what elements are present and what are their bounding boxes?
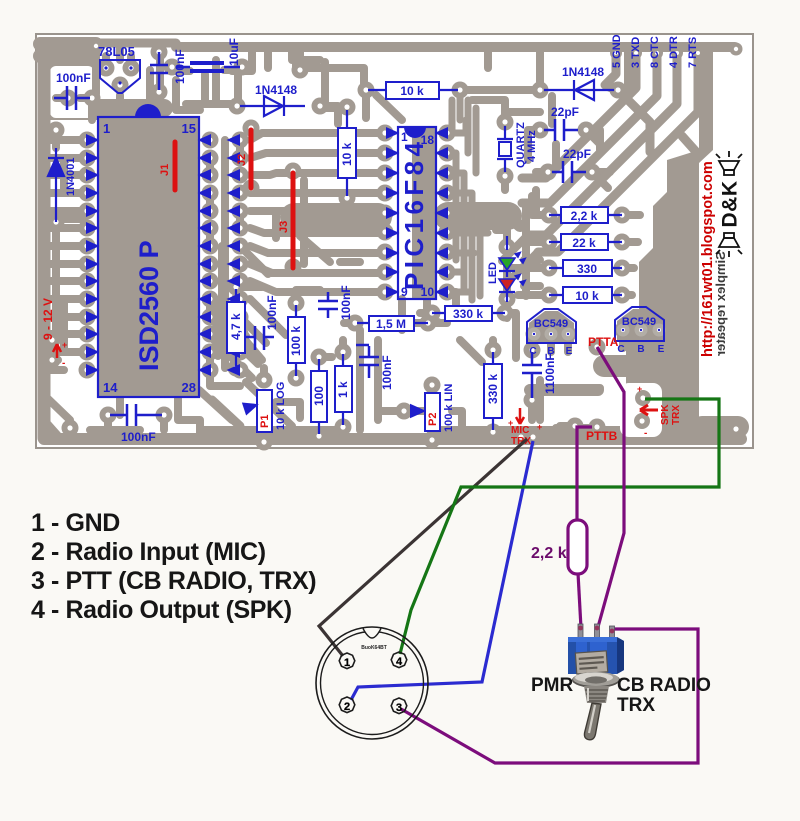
svg-text:BC549: BC549: [534, 318, 568, 330]
svg-text:1: 1: [103, 121, 110, 136]
svg-text:SPK: SPK: [660, 404, 671, 425]
wire: PIC right escape traces: [449, 120, 488, 300]
resistor R 10k right: [563, 287, 612, 303]
resistor R 330k horizontal: [445, 306, 492, 321]
PCB board outline: [36, 34, 753, 448]
wire: resistor ladder connections: [512, 196, 640, 295]
capacitor C 10uF electrolytic: [176, 66, 240, 69]
wire: PIC right vertical escapes: [452, 95, 476, 173]
svg-text:+: +: [62, 340, 67, 350]
wire: bottom edge ground trace: [44, 433, 741, 445]
svg-text:BuoK64BT: BuoK64BT: [361, 645, 387, 651]
svg-text:100nF: 100nF: [121, 430, 156, 444]
resistor R 2,2k: [561, 207, 608, 223]
capacitor C 100nF right lower: [522, 352, 542, 398]
svg-text:E: E: [658, 344, 665, 355]
svg-text:100nF: 100nF: [339, 285, 353, 320]
svg-text:PMR: PMR: [531, 675, 574, 696]
DIN key notch: [363, 629, 381, 639]
toggle switch washer: [572, 672, 620, 688]
wire: density batch 3: [176, 46, 320, 110]
DIN connector circle: [316, 627, 428, 739]
toggle switch body: [568, 637, 624, 674]
svg-text:1 - GND: 1 - GND: [31, 509, 120, 537]
wire: extra top area traces: [150, 46, 505, 122]
wire: fan traces from top connector pads: [522, 50, 698, 252]
wire purple PTTA to switch middle pin: [597, 347, 624, 627]
resistor R 10k vertical: [338, 128, 356, 178]
svg-text:2 - Radio Input (MIC): 2 - Radio Input (MIC): [31, 538, 266, 566]
resistor R 22k: [561, 234, 608, 250]
capacitor C 100nF bottom under ISD: [110, 404, 162, 426]
svg-text:8 CTC: 8 CTC: [649, 36, 661, 68]
wire: vertical bus left of resistor ladder: [512, 190, 536, 296]
wire: middle vertical bus between pad columns: [225, 140, 240, 368]
svg-text:3 - PTT (CB RADIO, TRX): 3 - PTT (CB RADIO, TRX): [31, 567, 316, 595]
svg-text:1: 1: [344, 657, 350, 669]
jumper J1: [173, 142, 178, 190]
svg-text:28: 28: [182, 380, 196, 395]
svg-text:D&K: D&K: [719, 181, 742, 228]
resistor R 10k horizontal top: [386, 82, 439, 99]
svg-text:BC549: BC549: [622, 316, 656, 328]
wire purple DIN pin 3 to switch right pin: [401, 629, 698, 763]
IC U1 notch: [135, 104, 161, 117]
wire: left column extras: [48, 175, 80, 370]
svg-text:1N4148: 1N4148: [255, 83, 297, 97]
svg-text:3 TXD: 3 TXD: [630, 37, 642, 68]
regulator 78L05 outline: [100, 60, 140, 93]
svg-text:1,5 M: 1,5 M: [376, 317, 406, 331]
wire purple PTTB to 2,2k resistor: [577, 427, 592, 521]
wire: right large ground plane: [626, 150, 699, 434]
IC U1 pin arrows: [86, 134, 211, 376]
svg-text:15: 15: [182, 121, 196, 136]
node MIC TRX: [516, 408, 524, 424]
svg-text:-: -: [62, 358, 65, 369]
svg-text:5 GND: 5 GND: [611, 34, 623, 68]
wire: ISD left pin stubs: [48, 158, 80, 352]
resistor R 100k vertical: [288, 317, 305, 363]
wire: density batch 4: [276, 236, 360, 418]
diode D 1N4001: [48, 148, 64, 222]
svg-text:2,2 k: 2,2 k: [531, 545, 567, 562]
wire: density batch 2: [96, 50, 366, 124]
svg-text:CB RADIO: CB RADIO: [617, 675, 711, 696]
node SPK TRX: [620, 383, 662, 437]
svg-text:+: +: [637, 384, 642, 394]
svg-text:1 k: 1 k: [336, 381, 350, 398]
svg-text:14: 14: [103, 380, 118, 395]
wire: density batch 6: [210, 193, 276, 386]
wire: left area stubs to 1N4001 and supply pads: [44, 98, 92, 438]
IC U2 PIC16F84 outline: [398, 127, 436, 299]
wire: lower middle traces: [210, 287, 532, 442]
svg-text:3: 3: [396, 702, 402, 714]
svg-text:100nF: 100nF: [56, 71, 91, 85]
svg-text:22pF: 22pF: [551, 105, 579, 119]
transistor Q2 BC549: [617, 309, 662, 340]
svg-text:B: B: [637, 344, 644, 355]
wire: 78L05 area: [100, 99, 164, 117]
DIN pin 2: [339, 697, 355, 713]
wire: density batch 5: [48, 96, 608, 356]
svg-text:330 k: 330 k: [486, 374, 500, 404]
wire: lower area extras: [199, 300, 740, 430]
svg-text:-: -: [644, 428, 647, 439]
svg-text:J1: J1: [159, 164, 171, 176]
svg-text:22 k: 22 k: [572, 236, 596, 250]
svg-text:100 k: 100 k: [289, 326, 303, 356]
logo D&K with speaker icons: [716, 151, 742, 257]
svg-text:100nF: 100nF: [380, 355, 394, 390]
svg-text:100 k LIN: 100 k LIN: [443, 384, 455, 432]
wire: 10uF / top middle stubs: [178, 46, 628, 120]
svg-text:100nF: 100nF: [265, 295, 279, 330]
toggle switch label plate: [575, 651, 607, 674]
svg-text:4: 4: [396, 656, 403, 668]
DIN pin 1: [339, 653, 355, 669]
svg-text:4 DTR: 4 DTR: [668, 36, 680, 68]
LED D green: [506, 236, 508, 250]
svg-text:4 MHz: 4 MHz: [526, 130, 538, 162]
svg-text:+: +: [508, 418, 513, 428]
IC U1 ISD2560 outline: [98, 117, 199, 397]
resistor R 4,7k vertical: [227, 302, 245, 353]
capacitor C 100nF top-left: [54, 86, 90, 110]
IC U2 notch: [404, 127, 426, 138]
svg-text:PTTB: PTTB: [586, 429, 618, 443]
svg-text:Simplex repeater: Simplex repeater: [713, 251, 728, 356]
resistor R 1k vertical: [335, 366, 352, 412]
resistor 2,2k external: [568, 520, 587, 574]
resistor R 330k vertical: [484, 364, 502, 418]
svg-text:2: 2: [344, 701, 350, 713]
potentiometer P1: [257, 390, 272, 432]
svg-text:9 - 12 V: 9 - 12 V: [41, 298, 55, 340]
svg-text:C: C: [617, 344, 624, 355]
potentiometer P2: [425, 393, 440, 431]
wire: top edge ground trace: [38, 40, 98, 120]
transistor Q1 BC549: [529, 311, 574, 342]
svg-text:330: 330: [577, 262, 597, 276]
capacitor C 100nF mid-left: [246, 326, 274, 350]
toggle switch pins: [578, 624, 615, 638]
wire black GND from MIC TRX pad to DIN pin 1: [319, 439, 527, 656]
wire blue MIC from board to DIN pin 2: [351, 441, 533, 700]
jumper J3: [291, 173, 296, 268]
wire green SPK from board to DIN pin 4: [400, 399, 719, 654]
svg-text:1100nF: 1100nF: [543, 353, 557, 394]
DIN pin 4: [391, 652, 407, 668]
svg-text:1: 1: [401, 130, 408, 144]
wire: LED column: [496, 230, 540, 318]
IC U2 pin arrows: [386, 127, 448, 298]
svg-text:ISD2560 P: ISD2560 P: [134, 240, 164, 371]
svg-text:330 k: 330 k: [453, 307, 483, 321]
svg-text:4,7 k: 4,7 k: [229, 313, 243, 340]
svg-text:10 k: 10 k: [400, 84, 424, 98]
svg-text:MIC: MIC: [511, 425, 529, 436]
wire: quartz and 22pF connections: [505, 112, 610, 190]
wire purple 2,2k to switch left pin: [578, 573, 581, 628]
svg-text:+: +: [537, 422, 542, 432]
svg-text:J3: J3: [278, 221, 290, 233]
capacitor C 100nF beside 78L05: [150, 52, 168, 90]
pads with drill holes: [44, 40, 745, 451]
svg-text:10 k: 10 k: [575, 289, 599, 303]
svg-text:TRX: TRX: [671, 405, 682, 425]
svg-text:E: E: [566, 346, 573, 357]
wire: bottom band pads stubs: [108, 397, 643, 438]
wire: middle gray plane blob: [294, 203, 378, 231]
capacitor C 100nF lower middle: [356, 345, 379, 378]
diode D 1N4148 first: [240, 96, 305, 116]
svg-text:1N4148: 1N4148: [562, 65, 604, 79]
toggle switch bushing: [584, 686, 609, 703]
svg-text:1N4001: 1N4001: [65, 157, 77, 196]
svg-text:10 k: 10 k: [340, 142, 354, 166]
svg-text:7 RTS: 7 RTS: [687, 37, 699, 68]
resistor R 1,5M: [369, 316, 414, 331]
svg-text:10uF: 10uF: [227, 38, 241, 66]
svg-text:P2: P2: [427, 413, 439, 426]
svg-text:100: 100: [312, 386, 326, 406]
diode D 1N4148 second: [544, 80, 614, 100]
svg-text:22pF: 22pF: [563, 147, 591, 161]
svg-text:10 k LOG: 10 k LOG: [275, 382, 287, 430]
capacitor C 100nF middle: [318, 292, 338, 318]
crystal X1 quartz 4MHz: [497, 126, 513, 172]
svg-text:PTTA: PTTA: [588, 335, 619, 349]
toggle switch lever: [584, 703, 601, 740]
svg-text:TRX: TRX: [617, 695, 655, 716]
resistor R 330: [563, 260, 612, 276]
wire: ISD to PIC horizontal traces: [250, 133, 382, 292]
resistor R 100 vertical: [311, 371, 327, 422]
svg-text:2,2 k: 2,2 k: [571, 209, 598, 223]
svg-text:P1: P1: [259, 415, 271, 428]
svg-text:LED: LED: [487, 262, 499, 284]
capacitor C 22pF first: [544, 119, 578, 141]
IC U1 ISD2560 body plane: [98, 117, 199, 397]
jumper J2: [249, 130, 254, 188]
svg-text:4 - Radio Output (SPK): 4 - Radio Output (SPK): [31, 596, 292, 624]
connector row arrows next to middle pad column: [227, 134, 241, 376]
LED D red: [506, 271, 508, 277]
svg-text:78L05: 78L05: [98, 44, 135, 59]
wire: BC549 area stubs: [534, 330, 659, 368]
svg-text:J2: J2: [236, 154, 248, 166]
wire: left edge supply trace: [38, 46, 51, 438]
DIN pin 3: [391, 698, 407, 714]
capacitor C 22pF second: [552, 161, 586, 183]
